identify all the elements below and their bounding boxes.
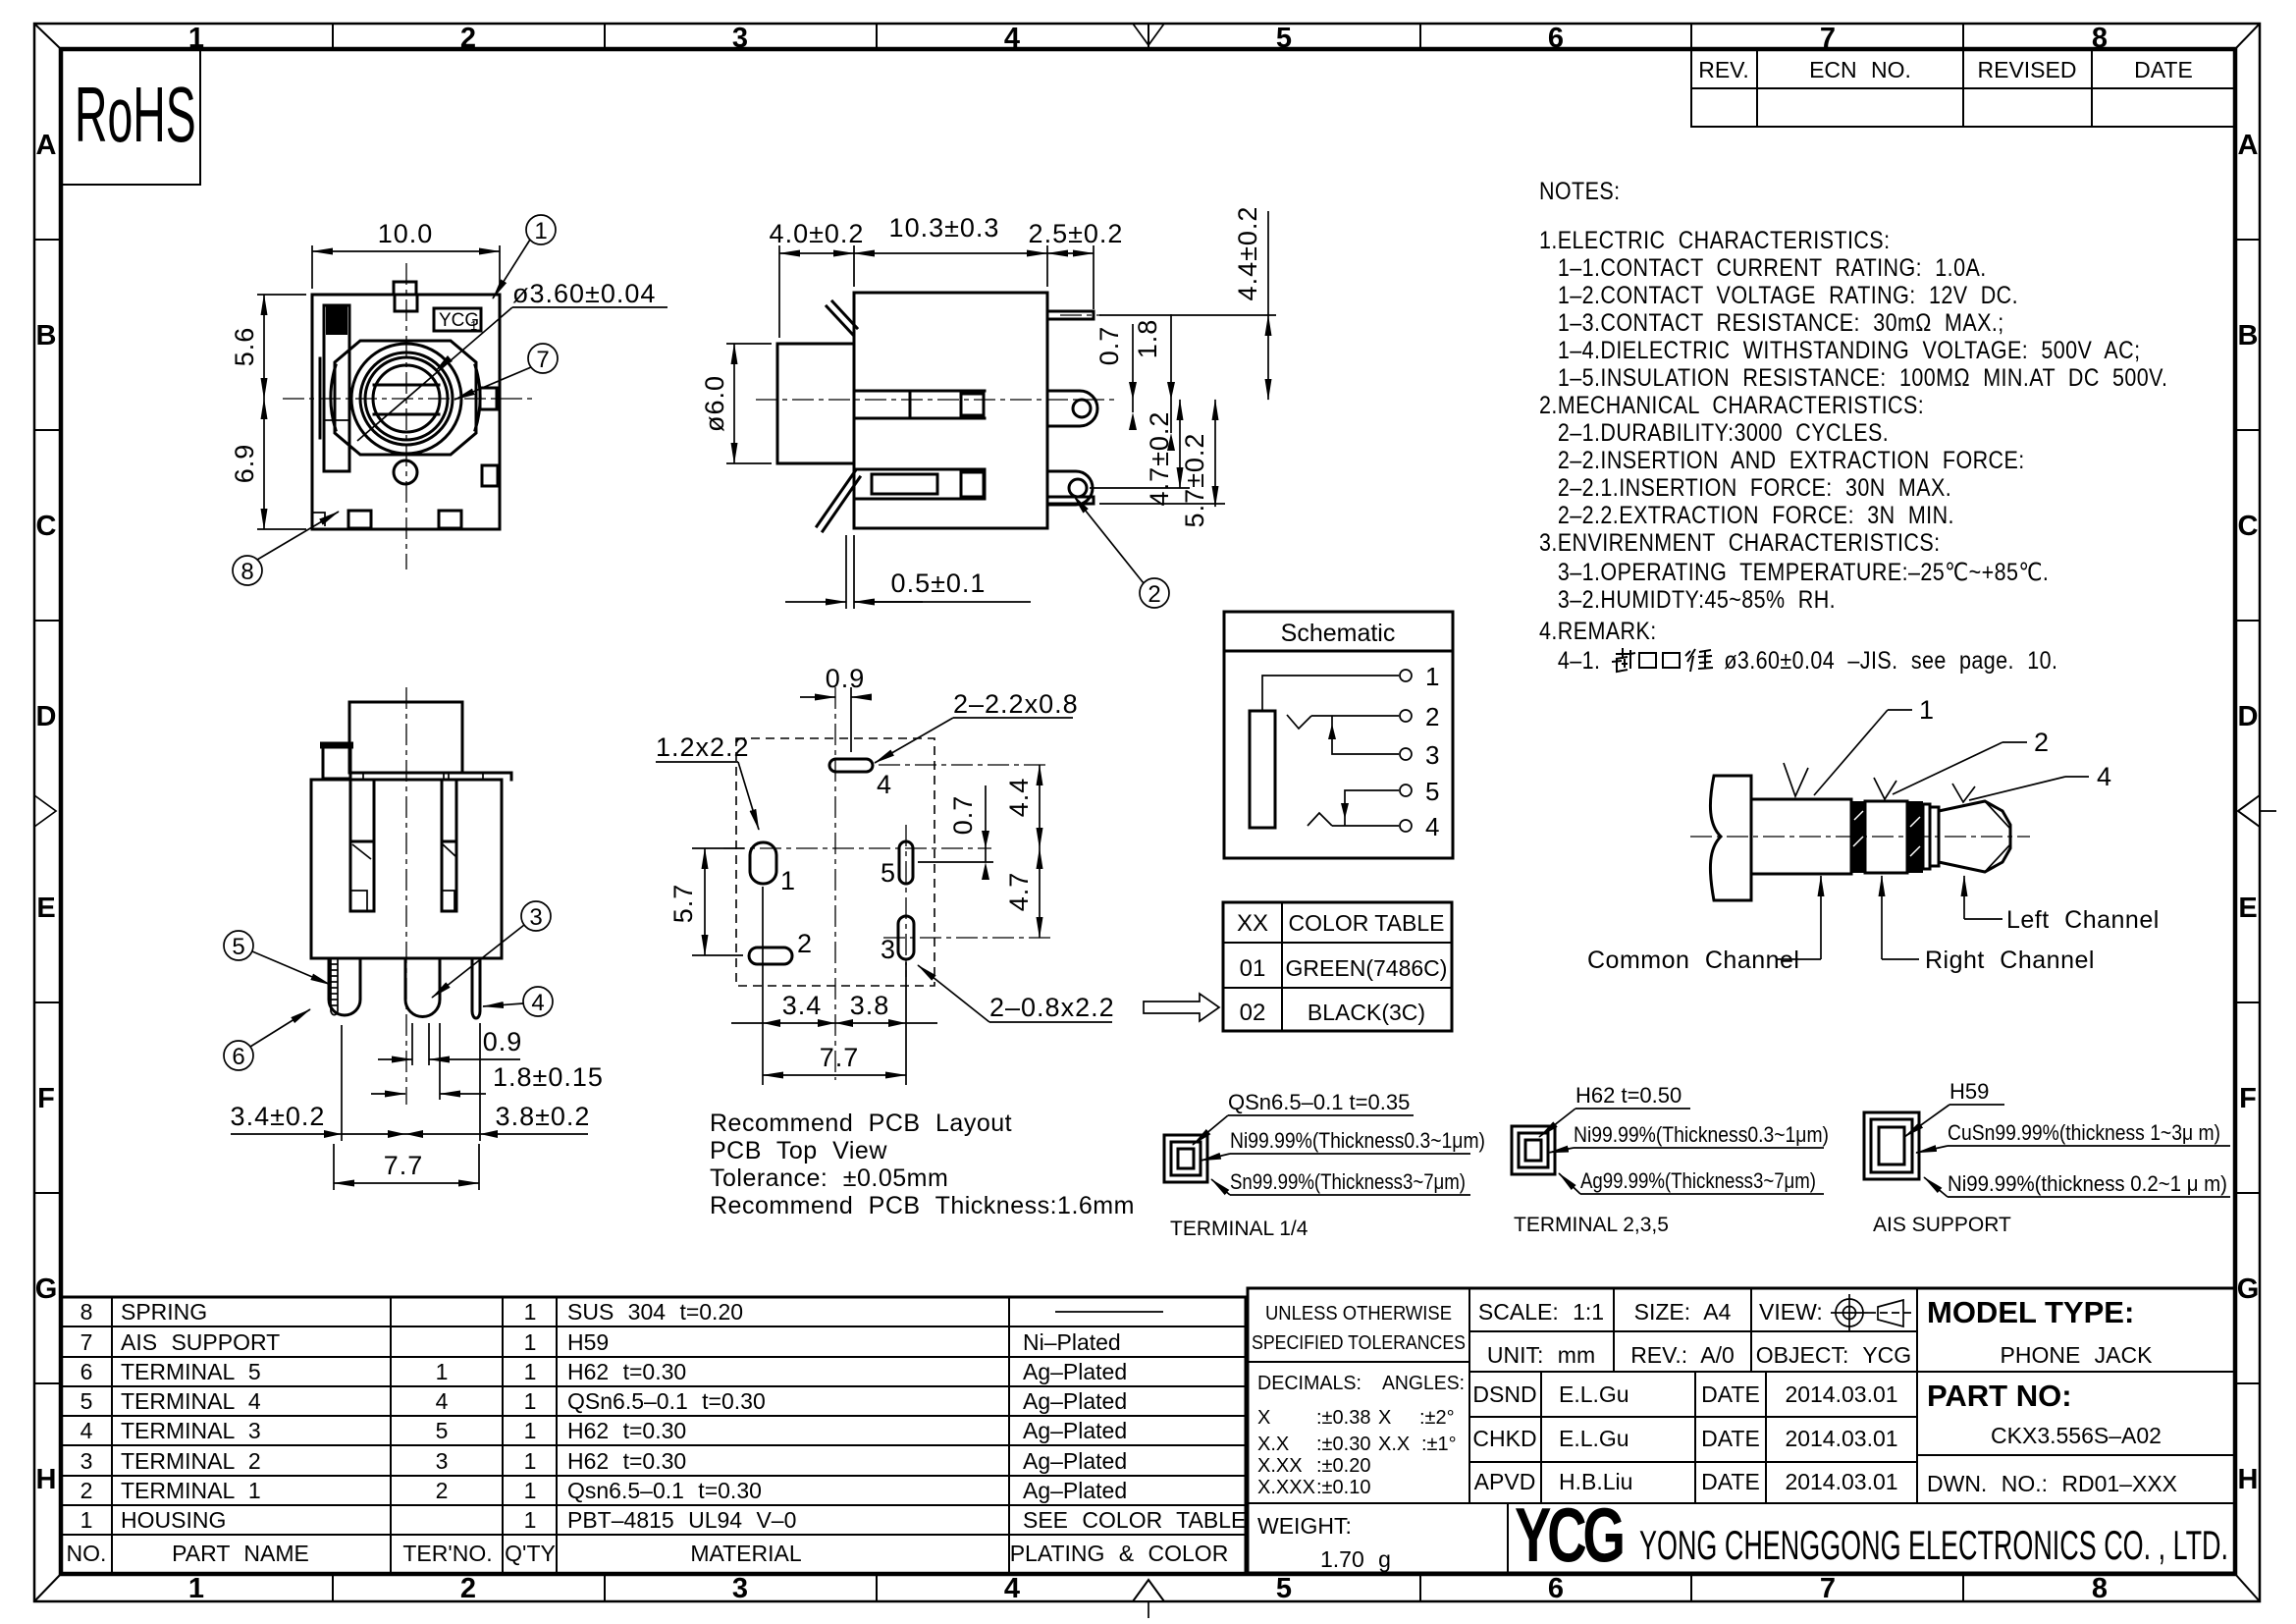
svg-text:REVISED: REVISED <box>1978 57 2077 82</box>
svg-text:BLACK(3C): BLACK(3C) <box>1308 1000 1425 1025</box>
svg-text:2: 2 <box>460 1573 476 1604</box>
svg-text:Ni–Plated: Ni–Plated <box>1023 1329 1121 1355</box>
svg-text:1.ELECTRIC CHARACTERISTICS:: 1.ELECTRIC CHARACTERISTICS: <box>1539 226 1890 253</box>
svg-text:PHONE JACK: PHONE JACK <box>2001 1342 2154 1368</box>
svg-text:G: G <box>35 1273 58 1305</box>
svg-text:2.5±0.2: 2.5±0.2 <box>1029 219 1124 248</box>
svg-text:TERMINAL 2: TERMINAL 2 <box>121 1448 261 1474</box>
svg-text:CHKD: CHKD <box>1472 1426 1536 1451</box>
svg-text:4: 4 <box>1004 1573 1020 1604</box>
svg-text:5.7±0.2: 5.7±0.2 <box>1180 433 1209 528</box>
svg-text:4–1.: 4–1. <box>1558 646 1601 674</box>
svg-text:APVD: APVD <box>1474 1469 1536 1494</box>
svg-text:X: X <box>1378 1407 1391 1429</box>
svg-text:CuSn99.99%(thickness 1~3μ m): CuSn99.99%(thickness 1~3μ m) <box>1948 1120 2220 1145</box>
svg-text:4.7±0.2: 4.7±0.2 <box>1145 411 1174 507</box>
svg-text::±2°: :±2° <box>1419 1407 1455 1429</box>
svg-text:2: 2 <box>460 23 476 54</box>
svg-text:Schematic: Schematic <box>1281 620 1396 647</box>
svg-text:OBJECT: YCG: OBJECT: YCG <box>1756 1342 1911 1368</box>
svg-text:F: F <box>2239 1083 2257 1114</box>
svg-text:10.3±0.3: 10.3±0.3 <box>889 213 1000 243</box>
svg-text:GREEN(7486C): GREEN(7486C) <box>1286 955 1448 981</box>
svg-text:0.9: 0.9 <box>826 664 866 693</box>
svg-text:3.ENVIRENMENT CHARACTERISTICS: 3.ENVIRENMENT CHARACTERISTICS: <box>1539 528 1941 556</box>
svg-text:5: 5 <box>80 1388 93 1414</box>
svg-text:6: 6 <box>232 1044 244 1070</box>
svg-text:SCALE: 1:1: SCALE: 1:1 <box>1478 1299 1604 1325</box>
svg-text:2: 2 <box>436 1478 449 1503</box>
svg-text:3–1.OPERATING TEMPERATURE:–25: 3–1.OPERATING TEMPERATURE:–25℃~+85℃. <box>1558 558 2049 585</box>
svg-text::±0.20: :±0.20 <box>1316 1455 1370 1477</box>
svg-text:ECN NO.: ECN NO. <box>1809 57 1911 82</box>
svg-text:REV.: A/0: REV.: A/0 <box>1630 1342 1735 1368</box>
svg-text:TER'NO.: TER'NO. <box>402 1541 492 1566</box>
svg-text:Ag–Plated: Ag–Plated <box>1023 1388 1127 1414</box>
svg-text:1: 1 <box>436 1359 449 1384</box>
svg-text:3.4: 3.4 <box>782 991 823 1020</box>
svg-text:AIS SUPPORT: AIS SUPPORT <box>1873 1214 2011 1236</box>
svg-text:2: 2 <box>80 1478 93 1503</box>
svg-text:TERMINAL 4: TERMINAL 4 <box>121 1388 261 1414</box>
svg-text:H59: H59 <box>567 1329 609 1355</box>
svg-text:NOTES:: NOTES: <box>1539 177 1621 204</box>
svg-text:6.9: 6.9 <box>230 444 259 484</box>
svg-text:4: 4 <box>2097 762 2112 791</box>
svg-text:Ag–Plated: Ag–Plated <box>1023 1359 1127 1384</box>
svg-text:X.X: X.X <box>1257 1434 1289 1455</box>
svg-text:REV.: REV. <box>1698 57 1749 82</box>
svg-text:TERMINAL 3: TERMINAL 3 <box>121 1418 261 1443</box>
svg-text:1: 1 <box>1919 695 1935 725</box>
svg-text:H.B.Liu: H.B.Liu <box>1559 1469 1632 1494</box>
svg-text:XX: XX <box>1237 910 1268 937</box>
svg-text:RoHS: RoHS <box>75 71 196 158</box>
svg-text:DWN. NO.: RD01–XXX: DWN. NO.: RD01–XXX <box>1927 1471 2177 1496</box>
svg-text:7.7: 7.7 <box>820 1043 860 1072</box>
svg-text:2–2.1.INSERTION FORCE: 30N: 2–2.1.INSERTION FORCE: 30N MAX. <box>1558 473 1951 501</box>
svg-text:SPECIFIED TOLERANCES: SPECIFIED TOLERANCES <box>1252 1332 1466 1354</box>
svg-text:1: 1 <box>524 1299 537 1325</box>
svg-text:7: 7 <box>1820 1573 1836 1604</box>
svg-text:DECIMALS:: DECIMALS: <box>1257 1373 1362 1394</box>
svg-text:3.4±0.2: 3.4±0.2 <box>231 1102 326 1131</box>
svg-text:H62 t=0.30: H62 t=0.30 <box>567 1448 686 1474</box>
svg-text:MODEL TYPE:: MODEL TYPE: <box>1927 1295 2134 1329</box>
svg-text:YCG: YCG <box>1515 1492 1623 1578</box>
svg-text:2014.03.01: 2014.03.01 <box>1785 1469 1897 1494</box>
svg-text:PART NAME: PART NAME <box>172 1541 309 1566</box>
svg-text:1.2x2.2: 1.2x2.2 <box>656 732 750 762</box>
svg-text:Sn99.99%(Thickness3~7μm): Sn99.99%(Thickness3~7μm) <box>1230 1169 1466 1194</box>
svg-text:2–2.INSERTION AND EXTRACTION: 2–2.INSERTION AND EXTRACTION FORCE: <box>1558 446 2025 473</box>
svg-text:1.8: 1.8 <box>1133 319 1162 359</box>
svg-text:0.7: 0.7 <box>1095 326 1124 366</box>
svg-text:SIZE: A4: SIZE: A4 <box>1634 1299 1732 1325</box>
svg-text:6: 6 <box>80 1359 93 1384</box>
svg-text:X.XX: X.XX <box>1257 1455 1303 1477</box>
svg-text:5: 5 <box>1425 777 1439 806</box>
svg-text:4: 4 <box>1004 23 1020 54</box>
svg-text:5: 5 <box>232 934 244 960</box>
svg-text:7: 7 <box>536 347 549 373</box>
svg-text:COLOR TABLE: COLOR TABLE <box>1289 910 1445 936</box>
svg-text:1–3.CONTACT RESISTANCE: 30mΩ: 1–3.CONTACT RESISTANCE: 30mΩ MAX.; <box>1558 308 2004 336</box>
svg-text::±0.30: :±0.30 <box>1316 1434 1370 1455</box>
svg-text:4: 4 <box>80 1418 93 1443</box>
svg-text:1: 1 <box>524 1478 537 1503</box>
svg-text:5: 5 <box>881 858 896 888</box>
svg-text:TERMINAL 2,3,5: TERMINAL 2,3,5 <box>1514 1214 1669 1236</box>
svg-text:1: 1 <box>524 1388 537 1414</box>
svg-text:CKX3.556S–A02: CKX3.556S–A02 <box>1991 1423 2162 1448</box>
svg-text:Qsn6.5–0.1 t=0.30: Qsn6.5–0.1 t=0.30 <box>567 1478 762 1503</box>
svg-text:X.XXX: X.XXX <box>1257 1477 1315 1498</box>
svg-text:PCB Top View: PCB Top View <box>710 1137 887 1164</box>
svg-text:E.L.Gu: E.L.Gu <box>1559 1426 1629 1451</box>
svg-text:2: 2 <box>2034 728 2050 757</box>
svg-text:7: 7 <box>1820 23 1836 54</box>
svg-text:1–4.DIELECTRIC WITHSTANDING: 1–4.DIELECTRIC WITHSTANDING VOLTAGE: 500… <box>1558 336 2141 363</box>
svg-text:3–2.HUMIDTY:45~85% RH.: 3–2.HUMIDTY:45~85% RH. <box>1558 585 1836 613</box>
svg-text:7.7: 7.7 <box>384 1151 424 1180</box>
svg-text:3: 3 <box>732 23 748 54</box>
svg-text:5: 5 <box>1276 23 1292 54</box>
svg-text:H: H <box>36 1464 57 1495</box>
svg-text:Ag–Plated: Ag–Plated <box>1023 1478 1127 1503</box>
svg-text:2.MECHANICAL CHARACTERISTICS:: 2.MECHANICAL CHARACTERISTICS: <box>1539 391 1924 418</box>
svg-text:Q'TY: Q'TY <box>505 1541 556 1566</box>
svg-text:H62 t=0.30: H62 t=0.30 <box>567 1418 686 1443</box>
svg-text:4: 4 <box>877 770 892 799</box>
svg-text:G: G <box>2237 1273 2260 1305</box>
svg-text:5.6: 5.6 <box>230 327 259 367</box>
svg-text:DATE: DATE <box>1701 1469 1760 1494</box>
svg-text:PLATING & COLOR: PLATING & COLOR <box>1010 1541 1229 1566</box>
svg-text:PBT–4815 UL94 V–0: PBT–4815 UL94 V–0 <box>567 1507 796 1533</box>
svg-text:UNIT: mm: UNIT: mm <box>1487 1342 1595 1368</box>
svg-text:DATE: DATE <box>2134 57 2193 82</box>
svg-text:4: 4 <box>436 1388 449 1414</box>
svg-text:QSn6.5–0.1 t=0.35: QSn6.5–0.1 t=0.35 <box>1228 1090 1410 1114</box>
svg-text:Ag–Plated: Ag–Plated <box>1023 1418 1127 1443</box>
svg-text:Ni99.99%(thickness 0.2~1 μ m): Ni99.99%(thickness 0.2~1 μ m) <box>1948 1171 2227 1196</box>
svg-text:1: 1 <box>524 1329 537 1355</box>
svg-text:TERMINAL 1: TERMINAL 1 <box>121 1478 261 1503</box>
svg-text:ø6.0: ø6.0 <box>700 375 729 432</box>
svg-text:0.7: 0.7 <box>948 795 978 836</box>
svg-text:VIEW:: VIEW: <box>1759 1299 1823 1325</box>
svg-text:0.5±0.1: 0.5±0.1 <box>891 568 987 598</box>
svg-text::±1°: :±1° <box>1421 1434 1457 1455</box>
svg-text:2: 2 <box>1425 702 1439 731</box>
svg-text:5.7: 5.7 <box>668 884 698 924</box>
svg-text:01: 01 <box>1240 955 1266 982</box>
svg-text:A: A <box>36 130 57 161</box>
svg-text:QSn6.5–0.1 t=0.30: QSn6.5–0.1 t=0.30 <box>567 1388 766 1414</box>
svg-text:3: 3 <box>436 1448 449 1474</box>
svg-text:2–2.2.EXTRACTION FORCE: 3N: 2–2.2.EXTRACTION FORCE: 3N MIN. <box>1558 501 1954 528</box>
svg-text:C: C <box>36 511 57 542</box>
svg-text:B: B <box>2238 320 2259 352</box>
svg-text:1: 1 <box>188 23 204 54</box>
svg-text:1–1.CONTACT CURRENT RATING:: 1–1.CONTACT CURRENT RATING: 1.0A. <box>1558 253 1987 281</box>
svg-text:Tolerance: ±0.05mm: Tolerance: ±0.05mm <box>710 1164 948 1192</box>
svg-text:5: 5 <box>436 1418 449 1443</box>
svg-text:1: 1 <box>188 1573 204 1604</box>
svg-text:WEIGHT:: WEIGHT: <box>1257 1513 1352 1539</box>
svg-text:Recommend PCB Thickness:1.6m: Recommend PCB Thickness:1.6mm <box>710 1192 1135 1219</box>
svg-text:8: 8 <box>2092 23 2108 54</box>
svg-text:E: E <box>2238 893 2257 924</box>
svg-text:4.7: 4.7 <box>1004 872 1034 912</box>
svg-text:Ni99.99%(Thickness0.3~1μm): Ni99.99%(Thickness0.3~1μm) <box>1574 1122 1829 1147</box>
svg-text:8: 8 <box>2092 1573 2108 1604</box>
svg-text:ø3.60±0.04 –JIS. see page.: ø3.60±0.04 –JIS. see page. 10. <box>1724 646 2057 674</box>
svg-text:H: H <box>2238 1464 2259 1495</box>
svg-text:1.8±0.15: 1.8±0.15 <box>493 1062 604 1092</box>
svg-text:2014.03.01: 2014.03.01 <box>1785 1381 1897 1407</box>
svg-text:YONG CHENGGONG ELECTRONICS: YONG CHENGGONG ELECTRONICS CO. , LTD. <box>1639 1522 2228 1568</box>
svg-text:2014.03.01: 2014.03.01 <box>1785 1426 1897 1451</box>
svg-text:3: 3 <box>80 1448 93 1474</box>
svg-text:D: D <box>2238 701 2259 732</box>
svg-text:6: 6 <box>1548 23 1564 54</box>
svg-text:3.8: 3.8 <box>850 991 890 1020</box>
svg-text:2–0.8x2.2: 2–0.8x2.2 <box>989 993 1115 1022</box>
svg-text:X.X: X.X <box>1378 1434 1410 1455</box>
svg-text:5: 5 <box>1276 1573 1292 1604</box>
svg-text:8: 8 <box>80 1299 93 1325</box>
svg-text:1: 1 <box>80 1507 93 1533</box>
svg-text:SUS 304 t=0.20: SUS 304 t=0.20 <box>567 1299 743 1325</box>
svg-text:4: 4 <box>1425 812 1439 841</box>
svg-text:E.L.Gu: E.L.Gu <box>1559 1381 1629 1407</box>
svg-text:2: 2 <box>1148 581 1160 608</box>
svg-text:2–1.DURABILITY:3000 CYCLES.: 2–1.DURABILITY:3000 CYCLES. <box>1558 418 1889 446</box>
svg-text:D: D <box>36 701 57 732</box>
svg-text:3: 3 <box>732 1573 748 1604</box>
svg-text:H62 t=0.50: H62 t=0.50 <box>1575 1083 1682 1108</box>
svg-text:02: 02 <box>1240 1000 1266 1026</box>
svg-text:10.0: 10.0 <box>378 219 434 248</box>
svg-text:E: E <box>36 893 55 924</box>
svg-text:1.70 g: 1.70 g <box>1320 1546 1391 1572</box>
svg-text:3: 3 <box>881 935 896 964</box>
svg-text:3: 3 <box>1425 740 1439 770</box>
svg-text:F: F <box>37 1083 55 1114</box>
svg-text:HOUSING: HOUSING <box>121 1507 226 1533</box>
svg-text:1: 1 <box>524 1507 537 1533</box>
svg-text:Recommend PCB Layout: Recommend PCB Layout <box>710 1110 1012 1137</box>
svg-text:4.0±0.2: 4.0±0.2 <box>770 219 865 248</box>
svg-text:1–5.INSULATION RESISTANCE: 1: 1–5.INSULATION RESISTANCE: 100MΩ MIN.AT … <box>1558 363 2167 391</box>
svg-text::±0.38: :±0.38 <box>1316 1407 1370 1429</box>
svg-text:7: 7 <box>80 1329 93 1355</box>
svg-text:Ag–Plated: Ag–Plated <box>1023 1448 1127 1474</box>
svg-text:3: 3 <box>529 904 542 931</box>
svg-text:2–2.2x0.8: 2–2.2x0.8 <box>953 689 1079 719</box>
svg-text:SEE COLOR TABLE: SEE COLOR TABLE <box>1023 1507 1246 1533</box>
svg-text:1: 1 <box>780 866 796 895</box>
svg-text:ANGLES:: ANGLES: <box>1382 1373 1465 1394</box>
svg-text:DSND: DSND <box>1472 1381 1536 1407</box>
svg-text:A: A <box>2238 130 2259 161</box>
svg-text::±0.10: :±0.10 <box>1316 1477 1370 1498</box>
svg-text:1: 1 <box>524 1359 537 1384</box>
svg-text:X: X <box>1257 1407 1270 1429</box>
svg-text:MATERIAL: MATERIAL <box>690 1541 802 1566</box>
svg-text:4.4: 4.4 <box>1004 778 1034 818</box>
svg-text:AIS SUPPORT: AIS SUPPORT <box>121 1329 280 1355</box>
svg-text:H62 t=0.30: H62 t=0.30 <box>567 1359 686 1384</box>
svg-text:DATE: DATE <box>1701 1426 1760 1451</box>
svg-text:NO.: NO. <box>67 1541 107 1566</box>
svg-text:PART NO:: PART NO: <box>1927 1379 2072 1413</box>
svg-text:TERMINAL 5: TERMINAL 5 <box>121 1359 261 1384</box>
svg-text:B: B <box>36 320 57 352</box>
svg-text:Ag99.99%(Thickness3~7μm): Ag99.99%(Thickness3~7μm) <box>1580 1168 1816 1193</box>
svg-text:1: 1 <box>1425 662 1439 691</box>
svg-text:2: 2 <box>797 929 813 958</box>
svg-text:1–2.CONTACT VOLTAGE RATING:: 1–2.CONTACT VOLTAGE RATING: 12V DC. <box>1558 281 2018 308</box>
svg-text:4: 4 <box>531 990 544 1016</box>
svg-text:TERMINAL 1/4: TERMINAL 1/4 <box>1170 1218 1308 1240</box>
svg-text:UNLESS OTHERWISE: UNLESS OTHERWISE <box>1265 1303 1452 1325</box>
svg-text:C: C <box>2238 511 2259 542</box>
svg-text:1: 1 <box>524 1418 537 1443</box>
svg-text:ø3.60±0.04: ø3.60±0.04 <box>512 279 656 308</box>
svg-text:H59: H59 <box>1949 1079 1989 1104</box>
svg-text:Left Channel: Left Channel <box>2006 906 2160 934</box>
svg-text:Right Channel: Right Channel <box>1925 947 2095 974</box>
svg-text:Common Channel: Common Channel <box>1587 947 1800 974</box>
svg-text:DATE: DATE <box>1701 1381 1760 1407</box>
svg-text:8: 8 <box>240 559 253 585</box>
svg-text:3.8±0.2: 3.8±0.2 <box>496 1102 591 1131</box>
svg-text:SPRING: SPRING <box>121 1299 207 1325</box>
svg-text:4.4±0.2: 4.4±0.2 <box>1233 206 1262 301</box>
svg-text:1: 1 <box>470 318 477 333</box>
svg-text:1: 1 <box>534 218 547 244</box>
svg-text:Ni99.99%(Thickness0.3~1μm): Ni99.99%(Thickness0.3~1μm) <box>1230 1128 1485 1153</box>
svg-text:0.9: 0.9 <box>483 1027 523 1056</box>
svg-text:4.REMARK:: 4.REMARK: <box>1539 617 1657 644</box>
svg-text:1: 1 <box>524 1448 537 1474</box>
